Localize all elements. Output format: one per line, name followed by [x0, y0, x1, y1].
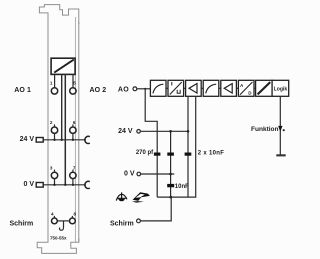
0V wire right — [141, 173, 175, 175]
terminal 3 upper tick — [54, 170, 56, 173]
terminal 6 clamp — [70, 127, 76, 133]
terminal 6 upper tick — [72, 124, 74, 127]
terminal 1 clamp — [51, 88, 57, 94]
svg-text:5: 5 — [73, 81, 76, 86]
function block 2 D/A with U output — [168, 80, 184, 96]
junction 24V / branch x170 — [169, 130, 172, 133]
stub between block3 and block4 — [201, 87, 203, 89]
junction rail197 / shield riser — [169, 196, 172, 199]
svg-text:AO: AO — [118, 87, 129, 94]
shield clamp icon busbar clamp — [132, 192, 150, 202]
shield link wire between terminals 4 and 8 — [57, 220, 69, 222]
svg-text:10nF: 10nF — [175, 184, 189, 190]
shield clamp icon earth — [116, 192, 127, 201]
terminal 2 upper tick — [54, 124, 56, 127]
capacitor C2 10nF — [167, 153, 174, 156]
svg-text:2: 2 — [50, 120, 53, 125]
function block 8 bus logic — [272, 80, 289, 96]
terminal 6 lower stub — [72, 133, 74, 139]
svg-text:Schirm: Schirm — [110, 220, 134, 227]
terminal 7 upper tick — [72, 170, 74, 173]
module housing top clip — [39, 5, 78, 24]
capacitor C4 10nF — [167, 184, 174, 187]
svg-text:24 V: 24 V — [118, 128, 133, 135]
terminal 4 upper tick — [53, 216, 55, 218]
terminal 7 clamp — [70, 172, 76, 178]
wire 0V feed from box — [64, 74, 66, 184]
0V power jumper contact tab — [36, 183, 43, 188]
stub between block2 and block3 — [184, 87, 186, 89]
terminal 5 clamp — [70, 88, 76, 94]
svg-text:7: 7 — [73, 165, 76, 170]
24V wire right — [140, 130, 188, 132]
decoupling branch wire x170 — [170, 131, 172, 197]
dot after Funktion — [283, 129, 285, 131]
module housing right wall — [78, 22, 80, 242]
svg-text:3: 3 — [50, 165, 53, 170]
svg-text:6: 6 — [73, 120, 76, 125]
capacitor C3 10nF — [185, 153, 192, 156]
junction 0V / branch x170 — [169, 173, 172, 176]
wire stub box to terminal 1 — [54, 74, 56, 87]
wire stub box to terminal 5 — [72, 74, 74, 87]
terminal 3 lower stub — [54, 179, 56, 185]
module housing inner right wall — [74, 17, 76, 242]
svg-text:2 x 10nF: 2 x 10nF — [198, 150, 224, 156]
AO branch drop wire — [145, 89, 157, 197]
stub between block1 and block2 — [166, 87, 168, 89]
module housing left wall — [47, 22, 49, 242]
svg-text:1: 1 — [50, 81, 53, 86]
DAC converter box U1 — [51, 58, 75, 74]
terminal 8 clamp — [70, 218, 76, 224]
function block 6 A/D converter — [238, 80, 254, 96]
24V terminal circle right — [137, 130, 141, 134]
terminal 8 upper tick — [71, 216, 73, 218]
junction terminal2-rail — [53, 139, 55, 141]
stub between block4 and block5 — [219, 87, 221, 89]
function block 7 galvanic isolation — [256, 80, 273, 96]
svg-text:Logik: Logik — [274, 86, 288, 92]
svg-text:24 V: 24 V — [20, 136, 35, 143]
terminal 3 clamp — [51, 172, 57, 178]
functional earth wire from Logik — [279, 96, 281, 154]
svg-text:0 V: 0 V — [23, 181, 34, 188]
24V power jumper socket — [85, 136, 90, 143]
svg-text:AO 2: AO 2 — [90, 87, 107, 94]
arrowhead on earth wire — [278, 126, 282, 132]
svg-text:0 V: 0 V — [124, 171, 135, 178]
shield hook to rail — [59, 221, 63, 230]
junction terminal7-rail — [72, 184, 74, 186]
svg-text:270 pf: 270 pf — [136, 150, 154, 156]
function block 1 filter curve — [150, 80, 166, 96]
shield drop wire x195.7 from block row — [157, 96, 196, 197]
svg-text:8: 8 — [74, 212, 77, 217]
wire 24V feed from box — [61, 74, 63, 139]
svg-text:Funktion: Funktion — [251, 126, 278, 133]
terminal 4 clamp — [52, 218, 58, 224]
svg-text:AO 1: AO 1 — [14, 87, 31, 94]
0V power jumper socket — [85, 181, 90, 188]
24V power jumper contact tab — [36, 138, 43, 143]
svg-text:Schirm: Schirm — [10, 220, 34, 227]
supply drop wire x188 from block row — [187, 96, 189, 197]
function block 4 filter curve — [203, 80, 219, 96]
DAC box diagonal — [54, 60, 74, 73]
Schirm wire and riser to rail197 — [140, 197, 171, 221]
junction AO wire / drop — [144, 88, 146, 90]
Schirm terminal circle right — [137, 219, 141, 223]
stub between block6 and block7 — [254, 87, 256, 89]
terminal 2 clamp — [51, 127, 57, 133]
stub between block5 and block6 — [236, 87, 238, 89]
24V rail wire — [43, 139, 86, 141]
module housing bottom foot — [37, 238, 79, 253]
AO terminal circle — [133, 87, 137, 91]
function block 3 amplifier triangle — [186, 80, 202, 96]
function block 5 amplifier triangle — [221, 80, 237, 96]
junction terminal6-rail — [72, 139, 74, 141]
capacitor C1 270pF — [154, 153, 161, 156]
junction 0Vfeed-rail — [64, 184, 66, 186]
0V terminal circle right — [137, 172, 141, 176]
terminal 7 lower stub — [72, 179, 74, 185]
svg-text:4: 4 — [51, 212, 54, 217]
junction terminal3-rail — [53, 184, 55, 186]
terminal 2 lower stub — [54, 133, 56, 139]
0V rail wire — [43, 184, 86, 186]
junction 24V end / x188 — [187, 130, 190, 133]
AO wire to block row — [137, 88, 151, 90]
functional earth bar — [276, 154, 285, 156]
junction 24Vfeed-rail — [61, 139, 63, 141]
svg-text:750-55x: 750-55x — [50, 235, 67, 240]
